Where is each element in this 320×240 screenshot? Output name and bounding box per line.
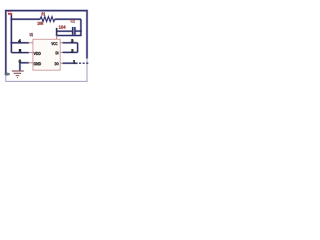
label 104 [59, 25, 66, 28]
label R1 [42, 12, 45, 15]
wire: top rail left of resistor [11, 18, 40, 20]
pin 5 into IC [29, 52, 33, 54]
IC U1 body [33, 39, 60, 70]
wire: top rail right of resistor [55, 18, 81, 20]
wire: capacitor left wire [57, 30, 72, 32]
pin 2 out of IC [60, 51, 62, 53]
ground symbol [12, 71, 24, 78]
wire: right vertical down from rail [80, 19, 82, 36]
wire: left pin 5 stub [11, 52, 28, 54]
wire: power stem vertical [10, 15, 12, 53]
wire: pin1 (DO) to right [63, 62, 78, 64]
pin number 1 [73, 60, 75, 63]
pin 6 into IC [29, 62, 33, 64]
wire: GND stub [20, 62, 29, 64]
power symbol VCC (red) [8, 11, 12, 15]
wire: capacitor right wire [76, 30, 81, 32]
pin name DO [55, 62, 59, 65]
pin number 6 [19, 60, 21, 63]
label 10R [37, 22, 43, 25]
pin name VCC [51, 42, 57, 45]
wire: pin2 (DI) to right [63, 51, 78, 53]
pin number 2 [71, 49, 73, 52]
junction at power stem / pin4 [10, 42, 12, 44]
label U1 [30, 33, 33, 36]
resistor R1 zigzag [40, 17, 55, 22]
wire: pin3 (VCC) to right [63, 42, 78, 44]
pin number 3 [71, 39, 73, 42]
junction at cap right [80, 30, 82, 32]
pin 3 out of IC [60, 42, 62, 44]
junction at top pin node [56, 35, 58, 37]
wire: dashed continuation of DO wire [79, 62, 88, 64]
pin name VDD [34, 52, 41, 55]
wire: left pin 4 stub [11, 42, 28, 44]
pin name DI [56, 52, 59, 55]
wire: vertical joining pin3 and pin2 wires [77, 43, 79, 53]
pin 4 into IC [29, 42, 33, 44]
junction at stem/rail corner [11, 18, 13, 20]
wire: vertical at cap-left node down to IC top pin [56, 28, 58, 36]
capacitor C1 plates [72, 27, 74, 35]
label C1 [71, 20, 75, 23]
sheet border frame [6, 11, 87, 82]
pin stub into IC top (pin VCC) [56, 36, 58, 40]
pin number 5 [19, 49, 21, 52]
pin name GND [34, 62, 41, 65]
wire: GND vertical [19, 63, 21, 71]
pin number 4 [18, 39, 20, 42]
pin 1 out of IC [60, 62, 62, 64]
wire: horizontal to top pin [57, 35, 82, 37]
dark smudge at bottom-left frame [4, 73, 10, 76]
